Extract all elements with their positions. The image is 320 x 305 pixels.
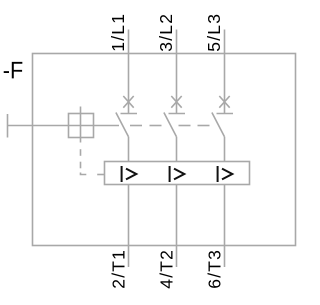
thermal overload trip unit box bbox=[105, 162, 250, 185]
dashed trip linkage corner dash bbox=[81, 173, 87, 175]
svg-text:5/L3: 5/L3 bbox=[204, 13, 224, 52]
pole 1 bottom conductor 2/T1 bbox=[128, 137, 130, 267]
actuator vertical stem bbox=[80, 107, 82, 143]
dashed trip linkage dash 2 bbox=[80, 162, 82, 169]
svg-text:6/T3: 6/T3 bbox=[205, 249, 225, 289]
pole 3 bottom conductor 6/T3 bbox=[224, 137, 226, 267]
dashed trip linkage dash 4 bbox=[97, 174, 104, 176]
actuator square bbox=[69, 114, 94, 138]
operator handle end bar bbox=[7, 114, 9, 138]
coupling dash a2 bbox=[150, 125, 162, 127]
svg-text:-F: -F bbox=[3, 56, 23, 83]
pole 2 top conductor 3/L2 bbox=[176, 30, 178, 114]
pole 1 moving contact blade bbox=[116, 113, 129, 137]
overload symbol I> pole 2 bbox=[170, 166, 185, 182]
svg-text:4/T2: 4/T2 bbox=[157, 249, 177, 289]
overload symbol I> pole 3 bbox=[218, 166, 233, 182]
svg-text:2/T1: 2/T1 bbox=[109, 249, 129, 289]
pole 2 fixed contact bar bbox=[169, 113, 186, 115]
pole 1 top conductor 1/L1 bbox=[128, 30, 130, 114]
coupling dash b1 bbox=[179, 125, 191, 127]
coupling dash b2 bbox=[198, 125, 210, 127]
pole 2 moving contact blade bbox=[164, 113, 177, 137]
coupling dash a1 bbox=[130, 125, 142, 127]
dashed trip linkage dash 1 bbox=[80, 149, 82, 156]
pole 3 moving contact blade bbox=[212, 113, 225, 137]
pole 2 bottom conductor 4/T2 bbox=[176, 137, 178, 267]
svg-text:3/L2: 3/L2 bbox=[156, 13, 176, 52]
pole 1 fixed contact bar bbox=[121, 113, 138, 115]
overload symbol I> pole 1 bbox=[122, 166, 137, 182]
pole 3 fixed contact bar bbox=[217, 113, 234, 115]
svg-text:1/L1: 1/L1 bbox=[108, 13, 128, 52]
pole 1 breaker cross bbox=[123, 96, 133, 108]
operator linkage wire bbox=[8, 125, 120, 127]
pole 2 breaker cross bbox=[171, 96, 181, 108]
enclosure outline bbox=[33, 54, 296, 246]
pole 3 top conductor 5/L3 bbox=[224, 30, 226, 114]
pole 3 breaker cross bbox=[219, 96, 229, 108]
